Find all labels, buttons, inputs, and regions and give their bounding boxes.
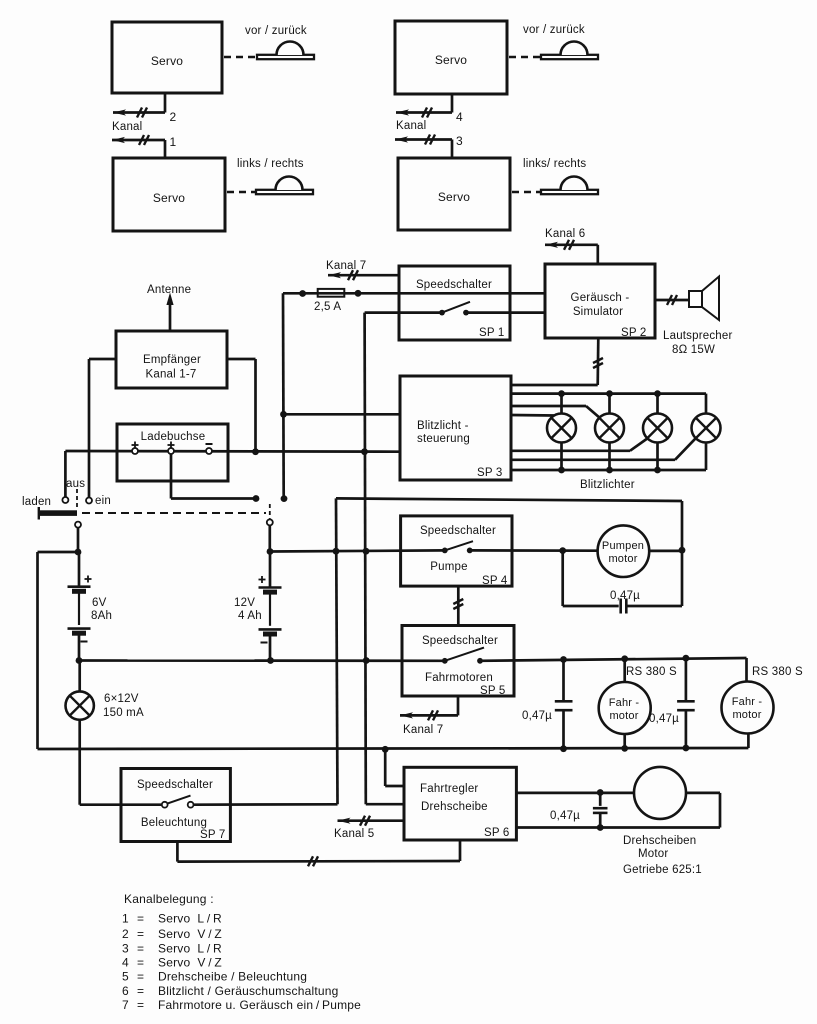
- label Kanal 7 bottom: [403, 724, 443, 736]
- turntable motor: [634, 767, 686, 819]
- fuse terminal dot left: [299, 290, 306, 297]
- flasher wire C to lamp2: [511, 406, 600, 418]
- motor2 bottom lead: [747, 734, 750, 749]
- svg-text:4: 4: [122, 956, 129, 970]
- junction to flasher box: [280, 411, 287, 418]
- label 1: [170, 135, 177, 149]
- svg-text:SP 3: SP 3: [477, 467, 503, 479]
- svg-text:0,47µ: 0,47µ: [610, 590, 640, 602]
- legend title Kanalbelegung: [124, 892, 214, 906]
- svg-text:2,5 A: 2,5 A: [314, 301, 341, 313]
- wire to motor2 top: [745, 658, 748, 681]
- flash lamp 4: [692, 414, 721, 443]
- junction cap2 top: [683, 655, 690, 662]
- svg-text:=: =: [137, 942, 144, 956]
- junction 12V minus: [267, 657, 274, 664]
- left rail down: [36, 552, 39, 749]
- dashed linkage to stick 1: [224, 56, 256, 59]
- wire servo2-box to kanal2 line: [164, 93, 167, 113]
- label 6V: [92, 597, 107, 609]
- svg-text:Speedschalter: Speedschalter: [416, 279, 492, 291]
- svg-text:Lautsprecher: Lautsprecher: [663, 330, 733, 342]
- label Kanal right: [396, 120, 426, 132]
- wire B-rail to SP1 switch: [365, 311, 442, 314]
- svg-text:SP 6: SP 6: [484, 827, 510, 839]
- wire SP6 bottom to SP7: [177, 840, 460, 866]
- speedschalter SP7 box: [121, 769, 230, 842]
- svg-text:Servo: Servo: [153, 191, 185, 205]
- svg-text:Servo V / Z: Servo V / Z: [158, 927, 222, 941]
- wire return line to SP6 upper input: [385, 749, 404, 786]
- svg-text:6V: 6V: [92, 597, 107, 609]
- svg-text:6×12V: 6×12V: [104, 693, 139, 705]
- svg-text:Fahr -: Fahr -: [609, 697, 640, 709]
- control stick 4: [541, 177, 598, 195]
- end dot supply rail: [281, 495, 288, 502]
- flasher control box: [400, 376, 511, 480]
- svg-text:Kanal 7: Kanal 7: [326, 260, 366, 272]
- svg-text:Simulator: Simulator: [573, 306, 623, 318]
- label 6V minus: [81, 641, 88, 643]
- pump cap loop: [563, 551, 682, 606]
- svg-text:vor / zurück: vor / zurück: [245, 25, 307, 37]
- svg-text:links/ rechts: links/ rechts: [523, 158, 586, 170]
- kanal 5 arrow: [338, 816, 405, 826]
- speedschalter SP1 box: [399, 266, 510, 340]
- svg-text:links / rechts: links / rechts: [237, 158, 304, 170]
- flash lamp 3: [643, 414, 672, 443]
- svg-text:Kanalbelegung :: Kanalbelegung :: [124, 892, 214, 906]
- label ein: [95, 495, 111, 507]
- svg-text:SP 1: SP 1: [479, 327, 505, 339]
- 6V battery: [68, 552, 91, 661]
- node 12V plus: [267, 548, 274, 555]
- end dot terminal2 branch: [253, 495, 260, 502]
- capacitor 0,47u pump: [621, 599, 627, 614]
- wire switch to 6V battery node: [77, 528, 80, 552]
- label 0,47u left: [522, 710, 552, 722]
- capacitor 0,47u left: [555, 660, 573, 749]
- wire SP1 to simulator lower: [466, 311, 545, 314]
- servo box channel 2 (vor/zurueck): [112, 22, 222, 93]
- svg-text:Servo: Servo: [151, 54, 183, 68]
- right switch dashed marker: [269, 504, 271, 519]
- svg-text:12V: 12V: [234, 597, 255, 609]
- junction bbus lamp1: [558, 467, 565, 474]
- junction ground with B rail: [363, 657, 370, 664]
- label SP 7: [200, 829, 226, 841]
- simulator output wire down: [593, 338, 603, 385]
- lamp1 top lead: [560, 394, 563, 414]
- label Pumpe: [430, 561, 467, 573]
- wire empfaenger right down: [227, 359, 256, 452]
- svg-text:Servo V / Z: Servo V / Z: [158, 956, 222, 970]
- label Blitzlichter: [580, 479, 635, 491]
- wire SP6 lower to motor right: [516, 793, 720, 828]
- wire right switch to 12V node: [268, 525, 271, 552]
- SP1 switch: [439, 302, 470, 316]
- label 3: [456, 134, 463, 148]
- rail B vertical: [365, 313, 366, 805]
- svg-text:Speedschalter: Speedschalter: [422, 635, 498, 647]
- svg-text:Getriebe 625:1: Getriebe 625:1: [623, 864, 702, 876]
- svg-text:motor: motor: [732, 709, 761, 721]
- junction return line SP6 branch: [382, 746, 389, 753]
- label SP 2: [621, 327, 647, 339]
- sound simulator box: [545, 264, 655, 338]
- label Motor: [638, 848, 668, 860]
- pump bypass wire: [336, 498, 682, 549]
- kanal 2 arrow: [113, 108, 165, 118]
- fuse terminal dot right: [355, 290, 362, 297]
- terminal ein: [86, 498, 92, 504]
- svg-text:SP 5: SP 5: [480, 685, 506, 697]
- junction pump cap left: [559, 547, 566, 554]
- wire 6V node to left rail: [38, 551, 79, 554]
- drive motor 1: [599, 682, 651, 734]
- wire to bulb: [78, 661, 81, 692]
- label SP 4: [482, 575, 508, 587]
- label 2,5 A: [314, 301, 341, 313]
- svg-text:Drehscheibe: Drehscheibe: [421, 801, 488, 813]
- junction bus lamp1: [558, 390, 565, 397]
- junction A 12V line: [333, 548, 340, 555]
- svg-text:=: =: [137, 998, 144, 1012]
- svg-text:1: 1: [122, 912, 129, 926]
- label SP 5: [480, 685, 506, 697]
- label 6x12V: [104, 693, 139, 705]
- svg-text:Fahrtregler: Fahrtregler: [420, 783, 478, 795]
- left supply rail down: [282, 293, 285, 498]
- label SP 1: [479, 327, 505, 339]
- svg-text:8Ah: 8Ah: [91, 610, 112, 622]
- svg-text:Blitzlicht -: Blitzlicht -: [417, 420, 469, 432]
- flasher bottom bus: [511, 442, 706, 470]
- label Kanal 5: [334, 828, 374, 840]
- dashed linkage to stick 3: [509, 56, 540, 59]
- svg-text:Geräusch -: Geräusch -: [571, 292, 630, 304]
- fuse 2,5A: [318, 289, 345, 297]
- antenna wire with up arrow: [166, 293, 173, 332]
- svg-text:Fahrmotore u. Geräusch ein / P: Fahrmotore u. Geräusch ein / Pumpe: [158, 998, 361, 1012]
- label 4: [456, 110, 463, 124]
- servo box channel 4 (vor/zurueck): [395, 21, 507, 94]
- svg-text:=: =: [137, 927, 144, 941]
- junction turntable cap bottom: [597, 824, 604, 831]
- svg-text:motor: motor: [608, 553, 637, 565]
- svg-text:Empfänger: Empfänger: [143, 354, 201, 366]
- svg-text:7: 7: [122, 998, 129, 1012]
- 12V line to SP4: [270, 550, 445, 551]
- junction B ladebuchse line: [361, 448, 368, 455]
- control stick 1: [257, 42, 314, 60]
- label 0,47u right: [649, 713, 679, 725]
- SP5 switch: [442, 648, 484, 664]
- control stick 2: [256, 177, 313, 195]
- wire kanal3 line to servo box: [451, 140, 454, 159]
- svg-text:5: 5: [122, 970, 129, 984]
- label RS 380 S right: [752, 666, 803, 678]
- charging socket box Ladebuchse: [117, 424, 228, 481]
- junction bus lamp2: [606, 390, 613, 397]
- terminal 1: [132, 442, 139, 455]
- svg-text:0,47µ: 0,47µ: [522, 710, 552, 722]
- label 12V minus: [261, 642, 268, 644]
- svg-text:4 Ah: 4 Ah: [238, 610, 262, 622]
- wire terminal2 down and right: [171, 454, 253, 499]
- main switch lever: [39, 507, 77, 520]
- SP7 switch: [162, 796, 194, 808]
- label 0,47u pump: [610, 590, 640, 602]
- wire kanal6 to simulator: [596, 245, 599, 264]
- legend channel list: [122, 912, 361, 1013]
- SP4 switch: [442, 541, 473, 553]
- svg-text:2: 2: [170, 110, 177, 124]
- svg-text:Fahr -: Fahr -: [732, 696, 763, 708]
- label 150 mA: [103, 707, 144, 719]
- wire kanal1 line to servo box: [164, 140, 167, 158]
- label Kanal left: [112, 121, 142, 133]
- label Lautsprecher: [663, 330, 733, 342]
- svg-text:Beleuchtung: Beleuchtung: [141, 817, 207, 829]
- svg-text:Blitzlicht / Geräuschumschaltu: Blitzlicht / Geräuschumschaltung: [158, 984, 338, 998]
- svg-text:steuerung: steuerung: [417, 433, 470, 445]
- label 2: [170, 110, 177, 124]
- bulb 6x12V: [66, 691, 94, 719]
- flasher wire A to simulator: [511, 384, 598, 387]
- label Antenne: [147, 284, 191, 296]
- svg-text:Drehscheiben: Drehscheiben: [623, 835, 696, 847]
- svg-text:Kanal: Kanal: [396, 120, 426, 132]
- svg-text:Blitzlichter: Blitzlichter: [580, 479, 635, 491]
- loudspeaker: [689, 277, 719, 321]
- wire empfaenger left to ein terminal: [89, 359, 116, 498]
- node 6V minus: [76, 657, 83, 664]
- label 12V: [234, 597, 255, 609]
- flash lamp 1: [547, 414, 576, 443]
- label 6V plus: [85, 576, 92, 583]
- svg-text:1: 1: [170, 135, 177, 149]
- svg-text:Kanal 1-7: Kanal 1-7: [145, 369, 196, 381]
- terminal 2: [168, 442, 175, 455]
- node 6V plus: [75, 549, 82, 556]
- wire SP5 to drive motors: [480, 658, 747, 661]
- supply wire through fuse to sound simulator: [283, 292, 545, 295]
- svg-text:=: =: [137, 970, 144, 984]
- svg-text:=: =: [137, 956, 144, 970]
- svg-text:Ladebuchse: Ladebuchse: [141, 431, 206, 443]
- label links/rechts left: [237, 158, 304, 170]
- capacitor 0,47u right: [677, 658, 695, 748]
- svg-text:Servo: Servo: [435, 53, 467, 67]
- wire terminal line to laden: [64, 451, 67, 497]
- dashed linkage to stick 2: [227, 191, 256, 194]
- kanal 1 arrow: [112, 135, 165, 145]
- ground line batteries to SP5: [79, 659, 445, 662]
- 12V battery: [259, 552, 282, 661]
- label Kanal 7 top: [326, 260, 366, 272]
- label Drehscheiben: [623, 835, 696, 847]
- flasher wire F to lamp4: [511, 438, 696, 460]
- svg-text:Speedschalter: Speedschalter: [420, 525, 496, 537]
- svg-text:=: =: [137, 984, 144, 998]
- flasher top bus: [511, 394, 706, 414]
- label SP 3: [477, 467, 503, 479]
- junction empfaenger-ladebuchse line: [252, 448, 259, 455]
- svg-text:Pumpen: Pumpen: [602, 540, 644, 552]
- svg-text:SP 7: SP 7: [200, 829, 226, 841]
- junction B 12V line: [363, 548, 370, 555]
- svg-text:Servo: Servo: [438, 190, 470, 204]
- svg-text:Motor: Motor: [638, 848, 668, 860]
- flash lamp 2: [595, 414, 624, 443]
- svg-text:RS 380 S: RS 380 S: [626, 666, 677, 678]
- junction cap1 top: [560, 656, 567, 663]
- right switch contact: [267, 519, 273, 525]
- svg-text:ein: ein: [95, 495, 111, 507]
- dashed aus marker: [76, 489, 78, 509]
- kanal 4 arrow: [396, 108, 452, 118]
- dashed linkage to stick 4: [512, 191, 540, 194]
- label Fahrmotoren: [425, 672, 493, 684]
- terminal laden: [62, 497, 68, 503]
- svg-text:Pumpe: Pumpe: [430, 561, 467, 573]
- junction turntable cap top: [597, 789, 604, 796]
- label laden: [22, 496, 51, 508]
- wire simulator to speaker: [655, 295, 689, 305]
- svg-text:3: 3: [122, 942, 129, 956]
- lamp1 bottom lead: [560, 442, 563, 470]
- motor1 bottom lead: [623, 734, 626, 748]
- corner B to SP6: [366, 803, 404, 806]
- svg-text:motor: motor: [609, 710, 638, 722]
- svg-text:2: 2: [122, 927, 129, 941]
- junction bus lamp3: [654, 390, 661, 397]
- svg-text:Drehscheibe / Beleuchtung: Drehscheibe / Beleuchtung: [158, 970, 307, 984]
- svg-text:4: 4: [456, 110, 463, 124]
- fahrtregler SP6 box: [404, 767, 516, 840]
- svg-text:Kanal 5: Kanal 5: [334, 828, 374, 840]
- svg-text:laden: laden: [22, 496, 51, 508]
- junction cap1 bottom: [560, 745, 567, 752]
- label 8Ah: [91, 610, 112, 622]
- wire SP5 to kanal7 arrow: [457, 696, 460, 715]
- label RS 380 S left: [626, 666, 677, 678]
- label SP 6: [484, 827, 510, 839]
- junction bbus lamp3: [654, 467, 661, 474]
- receiver box Empfaenger: [116, 331, 227, 388]
- flasher wire E to lamp3: [511, 439, 647, 451]
- wire SP7 to rail A: [194, 803, 338, 806]
- svg-text:aus: aus: [66, 478, 85, 490]
- svg-text:SP 4: SP 4: [482, 575, 508, 587]
- wire bulb to SP7: [80, 720, 162, 805]
- label Kanal 6: [545, 228, 585, 240]
- servo box channel 3 (links/rechts): [398, 158, 510, 230]
- svg-text:Servo L / R: Servo L / R: [158, 942, 222, 956]
- motor1 top lead: [623, 659, 626, 682]
- junction bbus lamp2: [606, 467, 613, 474]
- label vor/zurueck left: [245, 25, 307, 37]
- wire to blitzlicht box: [284, 413, 400, 416]
- drive motor 2: [722, 682, 774, 734]
- label 12V plus: [259, 576, 266, 583]
- svg-text:3: 3: [456, 134, 463, 148]
- wire SP6 to turntable motor: [516, 792, 634, 795]
- speedschalter SP5 box: [402, 626, 514, 697]
- svg-text:Fahrmotoren: Fahrmotoren: [425, 672, 493, 684]
- svg-text:Kanal 6: Kanal 6: [545, 228, 585, 240]
- kanal 7 arrow to SP1: [328, 270, 399, 280]
- label aus: [66, 478, 85, 490]
- lamp3 bottom lead: [656, 442, 659, 470]
- wire pump motor right: [649, 550, 682, 553]
- label 8ohm 15W: [672, 344, 715, 356]
- lamp2 bottom lead: [608, 442, 611, 470]
- lamp2 top lead: [608, 394, 611, 414]
- svg-text:RS 380 S: RS 380 S: [752, 666, 803, 678]
- junction cap2 bottom: [683, 745, 690, 752]
- svg-text:8Ω 15W: 8Ω 15W: [672, 344, 715, 356]
- svg-text:Servo L / R: Servo L / R: [158, 912, 222, 926]
- svg-text:0,47µ: 0,47µ: [550, 810, 580, 822]
- speedschalter SP4 box: [401, 516, 512, 586]
- label 0,47u turntable: [550, 810, 580, 822]
- svg-text:150 mA: 150 mA: [103, 707, 144, 719]
- label links/rechts right: [523, 158, 586, 170]
- junction motor1 top: [621, 655, 628, 662]
- flasher wire D to lamp1: [511, 414, 555, 417]
- svg-text:vor / zurück: vor / zurück: [523, 24, 585, 36]
- label 4Ah: [238, 610, 262, 622]
- svg-text:Kanal 7: Kanal 7: [403, 724, 443, 736]
- terminal 3: [206, 444, 213, 454]
- bottom return line: [38, 748, 749, 749]
- rail A vertical: [336, 498, 338, 804]
- pump motor: [598, 525, 650, 577]
- svg-text:=: =: [137, 912, 144, 926]
- mechanical coupling dashed line: [82, 512, 266, 514]
- kanal 6 arrow: [545, 240, 598, 250]
- svg-text:Speedschalter: Speedschalter: [137, 779, 213, 791]
- kanal 3 arrow: [395, 135, 452, 145]
- control stick 3: [541, 42, 598, 60]
- label Getriebe 625:1: [623, 864, 702, 876]
- wire servo4-box to kanal4 line: [451, 94, 454, 113]
- svg-text:Kanal: Kanal: [112, 121, 142, 133]
- ladebuchse terminal line: [65, 450, 400, 453]
- svg-text:0,47µ: 0,47µ: [649, 713, 679, 725]
- junction pump cap right: [679, 547, 686, 554]
- servo box channel 1 (links/rechts): [113, 158, 225, 231]
- kanal 7 arrow bottom: [400, 710, 458, 720]
- lamp3 top lead: [656, 394, 659, 414]
- svg-text:SP 2: SP 2: [621, 327, 647, 339]
- switch common contact left: [75, 522, 81, 528]
- svg-text:Antenne: Antenne: [147, 284, 191, 296]
- label Beleuchtung: [141, 817, 207, 829]
- junction motor1 bottom: [621, 745, 628, 752]
- label vor/zurueck right: [523, 24, 585, 36]
- svg-text:6: 6: [122, 984, 129, 998]
- wire SP4 to SP5: [453, 586, 463, 625]
- capacitor 0,47u turntable: [593, 793, 608, 828]
- wire SP4 to pump motor: [470, 549, 598, 552]
